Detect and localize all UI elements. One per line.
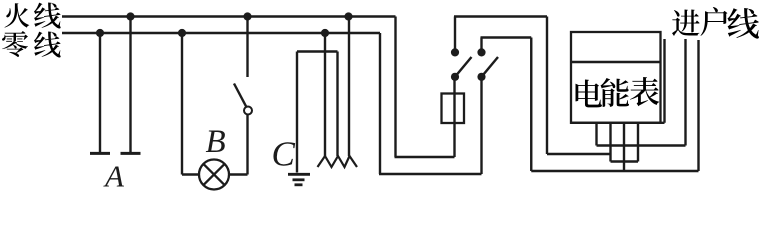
- wire T1 to service line 1: [597, 144, 686, 146]
- node junction neutral-C: [321, 29, 329, 37]
- socket C pin contacts (three forked holes): [318, 156, 358, 167]
- wire neutral to knife switch: [480, 77, 482, 174]
- node junction live-B: [243, 12, 251, 20]
- wire A neutral drop: [99, 33, 101, 152]
- wire B neutral drop: [181, 33, 183, 175]
- wire C live pin drop: [348, 17, 350, 157]
- wire live U bottom: [395, 156, 455, 158]
- node junction live-A: [126, 12, 134, 20]
- wire C earth bridge: [297, 50, 338, 52]
- wire lamp left lead: [182, 173, 200, 175]
- wire neutral descent: [379, 33, 381, 174]
- lamp B (circle with X): [199, 160, 229, 190]
- node junction neutral-B: [178, 29, 186, 37]
- meter terminal 1: [595, 123, 597, 146]
- wire T2 to switch drop: [547, 153, 611, 155]
- service entrance line 1: [684, 39, 686, 146]
- fuse F1: [442, 94, 465, 124]
- label 电能表: [576, 77, 660, 107]
- meter right double edge: [663, 39, 665, 123]
- energy meter box 电能表: [571, 32, 661, 123]
- service entrance line 2: [697, 40, 699, 171]
- meter display divider: [571, 61, 661, 63]
- wire T3 to service line 2: [531, 170, 698, 172]
- wire neutral bus 零线: [62, 32, 380, 34]
- switch S1 (lamp switch, open) blade: [234, 84, 246, 107]
- switch S2 pole2 blade: [482, 57, 499, 77]
- ground symbol: [288, 173, 310, 176]
- wire A live drop: [129, 17, 131, 153]
- node junction live-C: [344, 12, 352, 20]
- wire through fuse: [453, 77, 455, 157]
- wire C earth pin drop: [336, 52, 338, 157]
- switch S2 pole1 blade: [455, 57, 472, 77]
- wire switch to lamp: [246, 115, 248, 175]
- wire drop x531: [530, 38, 532, 172]
- label 火线 (live wire): [5, 2, 61, 28]
- svg-text:B: B: [206, 124, 226, 160]
- wire B live drop to switch: [246, 17, 248, 78]
- switch S2 pole2 bottom terminal: [477, 73, 485, 81]
- switch S1 pivot: [244, 107, 252, 115]
- wire drop x547: [546, 17, 548, 155]
- switch S2 pole1 bottom terminal: [451, 73, 459, 81]
- meter terminal 4: [637, 123, 639, 162]
- wire live descent: [394, 17, 396, 158]
- wire pole1 up: [454, 17, 456, 53]
- socket A terminal bar 1: [90, 152, 110, 155]
- wire T2-T4 link: [611, 160, 639, 162]
- wire pole2 up: [480, 38, 482, 53]
- wire C earth to ground: [296, 52, 298, 173]
- switch S2 pole1 top terminal: [451, 48, 459, 56]
- svg-text:C: C: [272, 135, 296, 174]
- socket A terminal bar 2: [121, 152, 141, 155]
- wire C neutral pin drop: [324, 33, 326, 156]
- wire lamp right lead: [229, 173, 248, 175]
- wire switch pole2 top run: [481, 36, 532, 38]
- label 零线 (neutral wire): [2, 31, 61, 57]
- wire live bus 火线: [62, 15, 396, 17]
- wire neutral U bottom: [379, 173, 482, 175]
- switch S2 pole2 top terminal: [477, 48, 485, 56]
- svg-text:A: A: [103, 159, 125, 192]
- wire switch to meter T2 top run: [454, 15, 547, 17]
- label 进户线 (service entrance lines): [672, 7, 759, 39]
- node junction neutral-A: [96, 29, 104, 37]
- meter terminal 3: [623, 123, 625, 171]
- meter bottom edge full: [571, 122, 665, 124]
- meter terminal 2: [609, 123, 611, 162]
